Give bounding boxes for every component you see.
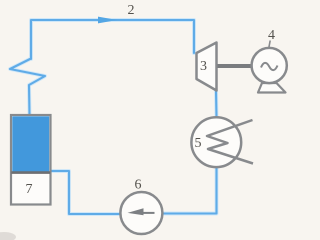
svg-text:5: 5 bbox=[195, 136, 202, 151]
svg-text:2: 2 bbox=[128, 3, 135, 18]
turbine 3 bbox=[197, 43, 217, 91]
svg-text:7: 7 bbox=[26, 182, 33, 197]
pump arrow bbox=[128, 208, 144, 215]
svg-text:3: 3 bbox=[200, 59, 207, 74]
flow arrow on top pipe bbox=[98, 17, 117, 24]
shaft turbine to generator bbox=[218, 64, 253, 68]
scan smudge bottom-left bbox=[0, 232, 16, 240]
wire top pipe (state 2) bbox=[31, 20, 194, 59]
generator 4 bbox=[252, 28, 287, 93]
generator pedestal bbox=[258, 83, 286, 93]
wire: boiler top to zigzag to top-left corner to turbine bbox=[10, 20, 217, 214]
pump 6 bbox=[120, 178, 162, 235]
svg-text:6: 6 bbox=[135, 178, 142, 193]
condenser coil zigzag bbox=[207, 120, 253, 164]
wire halos (soft scan look) bbox=[10, 20, 217, 214]
boiler divider line bbox=[11, 171, 50, 174]
zigzag break symbol bbox=[10, 59, 45, 115]
tilde sine mark bbox=[261, 63, 278, 70]
wire pump outlet to condenser bottom bbox=[162, 167, 216, 214]
leader line for 4 bbox=[269, 41, 270, 49]
boiler water fill bbox=[12, 116, 49, 172]
wire boiler outlet to pump inlet bbox=[51, 171, 121, 214]
condenser 5 bbox=[191, 117, 253, 167]
wire condenser top to turbine bottom bbox=[215, 91, 218, 117]
boiler vessel 7 bbox=[11, 115, 51, 205]
svg-text:4: 4 bbox=[268, 28, 275, 43]
